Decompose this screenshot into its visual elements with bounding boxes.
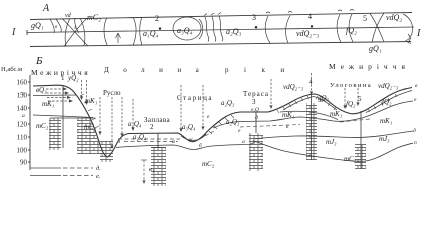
svg-text:д: д	[413, 127, 416, 134]
staritsa water line	[181, 134, 206, 140]
svg-text:а₂Q₄: а₂Q₄	[133, 133, 147, 141]
svg-text:110: 110	[17, 134, 28, 142]
small marks on top of curves	[266, 12, 292, 14]
svg-text:mJ₃: mJ₃	[379, 135, 390, 143]
svg-text:Б: Б	[35, 55, 43, 67]
svg-text:Улоговина: Улоговина	[330, 82, 372, 89]
under-hill short line	[280, 111, 338, 119]
squiggle cluster	[205, 17, 209, 42]
terrace / Q base line	[213, 101, 413, 128]
svg-text:140: 140	[17, 105, 28, 113]
svg-text:vd: vd	[65, 13, 72, 19]
svg-text:Межиріччя: Межиріччя	[329, 62, 410, 71]
svg-text:а₁Q₄: а₁Q₄	[143, 29, 159, 38]
svg-text:fQ₂: fQ₂	[382, 98, 392, 106]
svg-text:100: 100	[17, 147, 28, 155]
top of brick tick lines	[50, 118, 166, 148]
svg-text:Тераса: Тераса	[243, 90, 269, 98]
svg-text:4: 4	[308, 12, 312, 21]
svg-text:а₂Q₃: а₂Q₃	[226, 27, 242, 36]
svg-text:2: 2	[150, 123, 154, 131]
layer lines left block	[33, 95, 93, 118]
svg-text:I: I	[416, 28, 421, 39]
svg-text:1: 1	[61, 74, 65, 82]
curves mid-right	[265, 16, 270, 43]
mJ3 top	[253, 131, 413, 139]
svg-text:а: а	[242, 139, 245, 145]
svg-text:mC₂: mC₂	[344, 155, 357, 163]
water table dashed floodplain	[118, 119, 370, 142]
svg-text:mК₁: mК₁	[380, 117, 392, 125]
svg-text:Русло: Русло	[103, 89, 121, 97]
section labels	[36, 74, 399, 168]
surface profile	[33, 85, 412, 157]
svg-text:з: з	[117, 139, 120, 145]
top geographic labels	[31, 62, 410, 89]
svg-text:в₁: в₁	[149, 166, 154, 173]
svg-text:160: 160	[17, 79, 28, 87]
mJ3 base / mC2 top	[253, 141, 413, 162]
svg-text:д.: д.	[96, 165, 101, 172]
infiltration arrows (vertical dashed with down arrowheads)	[80, 73, 360, 149]
vd cover double line on hill	[283, 91, 412, 113]
svg-text:120: 120	[17, 121, 28, 129]
svg-text:vdQ₂: vdQ₂	[386, 13, 402, 22]
svg-text:а: а	[22, 113, 25, 119]
svg-text:Старица: Старица	[177, 94, 213, 102]
legend	[30, 168, 93, 176]
svg-text:Долина: Долина	[104, 66, 213, 74]
svg-text:е,Q: е,Q	[251, 107, 259, 113]
svg-text:в: в	[415, 83, 418, 89]
svg-text:3: 3	[252, 13, 256, 22]
strip middle section line I-I	[27, 27, 414, 33]
svg-text:е.: е.	[96, 173, 101, 180]
svg-text:3: 3	[252, 98, 256, 106]
big crossing near 370-386	[370, 14, 384, 43]
svg-text:vdQ₂₋₃: vdQ₂₋₃	[283, 83, 304, 91]
curves near x=105-140	[104, 18, 107, 46]
svg-text:5: 5	[363, 14, 367, 23]
svg-text:а₂Q₃: а₂Q₃	[221, 99, 235, 107]
svg-text:90: 90	[20, 159, 28, 167]
brick columns	[49, 103, 366, 186]
svg-text:ж: ж	[188, 137, 194, 143]
svg-text:з: з	[73, 26, 76, 31]
groundwater flow arrows in left plateau	[46, 87, 73, 102]
svg-text:gQ₁: gQ₁	[31, 21, 44, 30]
svg-text:gQ₁: gQ₁	[369, 44, 382, 53]
strip bottom line	[30, 42, 411, 47]
svg-text:Н,абс.м: Н,абс.м	[1, 66, 22, 73]
borehole dots on middle line	[159, 25, 313, 30]
double arcs near 340-352	[337, 15, 341, 43]
svg-text:А: А	[42, 3, 50, 14]
svg-text:д: д	[255, 114, 258, 121]
svg-text:в: в	[55, 25, 58, 30]
svg-text:а₂Q₃: а₂Q₃	[226, 118, 240, 126]
svg-text:б: б	[199, 142, 202, 149]
svg-text:вQ₃: вQ₃	[36, 86, 47, 94]
svg-text:ріки: ріки	[225, 66, 300, 74]
svg-text:mC₂: mC₂	[84, 123, 97, 131]
svg-text:е: е	[238, 128, 241, 134]
svg-text:mК₁: mК₁	[42, 100, 54, 108]
svg-text:4: 4	[309, 78, 313, 86]
svg-text:mК₁: mК₁	[330, 110, 342, 118]
up arrow (spring)	[117, 33, 119, 43]
svg-text:5: 5	[358, 95, 362, 103]
svg-text:fQ₂: fQ₂	[346, 26, 357, 35]
alluvium base	[116, 142, 255, 150]
oval (staritsa zone)	[173, 17, 201, 40]
svg-text:vdQ₂₋₃: vdQ₂₋₃	[378, 82, 399, 90]
hatch ticks on slopes	[80, 94, 397, 134]
svg-text:а₁Q₄: а₁Q₄	[128, 120, 142, 128]
svg-text:mC₂: mC₂	[36, 122, 49, 130]
svg-text:mC₂: mC₂	[87, 13, 101, 22]
tiny letters	[22, 83, 418, 149]
svg-text:а: а	[172, 139, 175, 145]
svg-text:е: е	[207, 114, 210, 120]
svg-text:mC₂: mC₂	[202, 160, 215, 168]
svg-text:уQ₂: уQ₂	[67, 74, 79, 82]
strip top line	[30, 13, 412, 20]
svg-text:п: п	[414, 140, 417, 146]
borehole lines	[63, 85, 361, 169]
svg-text:2: 2	[155, 14, 159, 23]
svg-text:I: I	[11, 27, 16, 38]
svg-text:mК₁: mК₁	[85, 97, 97, 105]
svg-text:mJ₃: mJ₃	[326, 138, 337, 146]
boundary curves left cluster (X crossing)	[62, 19, 88, 47]
svg-text:fQ₂: fQ₂	[346, 100, 356, 108]
svg-text:mК₁: mК₁	[282, 111, 294, 119]
svg-text:а₃Q₄: а₃Q₄	[182, 123, 196, 131]
svg-text:а₃Q₄: а₃Q₄	[177, 26, 193, 35]
right small oval	[403, 14, 413, 41]
svg-text:Заплава: Заплава	[144, 116, 170, 124]
svg-text:е: е	[414, 97, 417, 103]
axis	[28, 75, 30, 170]
left tick on middle line	[26, 30, 28, 35]
strip texts	[11, 3, 421, 53]
svg-text:vdQ₂₋₃: vdQ₂₋₃	[296, 29, 319, 38]
